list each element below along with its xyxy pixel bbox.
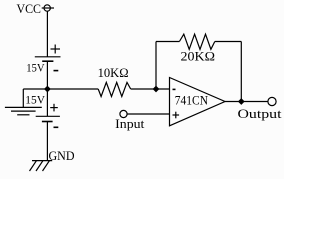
wire feedback right vertical xyxy=(240,42,242,102)
wire junction to earth ground xyxy=(23,89,47,107)
wire junction to battery B2 xyxy=(46,89,48,116)
op-amp U1 xyxy=(170,78,226,126)
VCC terminal xyxy=(42,5,54,11)
node B junction xyxy=(153,86,160,93)
wire feedback left vertical xyxy=(155,42,157,90)
op-amp inverting pin minus xyxy=(173,88,176,90)
svg-text:10KΩ: 10KΩ xyxy=(98,65,129,80)
resistor R2 20K xyxy=(179,34,214,49)
junction node A xyxy=(44,86,51,93)
wire B1 to junction xyxy=(46,61,48,89)
node C junction xyxy=(238,98,245,105)
svg-text:20KΩ: 20KΩ xyxy=(181,49,216,64)
battery B2 plus sign xyxy=(50,104,58,112)
battery B1 plus sign xyxy=(51,45,61,54)
svg-text:15V: 15V xyxy=(26,61,45,75)
svg-text:VCC: VCC xyxy=(17,1,42,16)
svg-text:GND: GND xyxy=(49,148,75,163)
battery B2 xyxy=(36,116,60,121)
wire B2 to chassis ground xyxy=(46,122,48,161)
wire junction to resistor R1 xyxy=(47,88,98,90)
wire VCC to battery B1 xyxy=(46,11,48,57)
earth ground xyxy=(5,107,42,114)
battery B2 minus sign xyxy=(54,126,59,128)
wire input terminal to non-inverting input xyxy=(127,113,169,115)
svg-text:Output: Output xyxy=(238,106,282,121)
wire op-amp output xyxy=(225,101,268,103)
wire feedback top left xyxy=(156,41,179,43)
chassis ground xyxy=(30,161,53,171)
battery B1 minus sign xyxy=(54,70,59,72)
svg-text:15V: 15V xyxy=(25,93,45,107)
wire feedback top right xyxy=(215,41,242,43)
svg-text:741CN: 741CN xyxy=(175,93,209,108)
input terminal xyxy=(120,110,127,117)
resistor R1 10K xyxy=(98,82,131,96)
battery B1 xyxy=(35,57,61,61)
op-amp non-inverting pin plus xyxy=(173,112,180,119)
output terminal xyxy=(268,97,276,105)
wire R1 to inverting input xyxy=(131,88,170,90)
svg-text:Input: Input xyxy=(115,116,145,131)
